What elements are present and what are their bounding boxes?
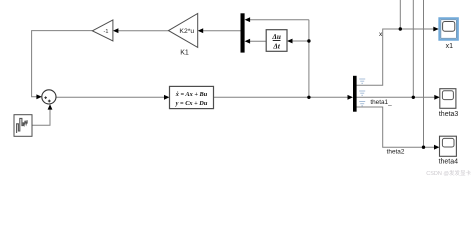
gain block -1 (flipped) (92, 20, 113, 41)
scope theta3 (440, 89, 456, 109)
wire: state-space output to demux input (214, 96, 349, 98)
mux M1 (flipped, 2 inputs) (241, 13, 245, 52)
arrowhead into demux input (348, 95, 354, 100)
svg-text:-1: -1 (104, 29, 109, 35)
svg-text:K1: K1 (180, 50, 189, 57)
svg-text:theta4: theta4 (439, 159, 459, 166)
wire: demux output 3 to scope theta4 (signal theta2) (357, 107, 435, 147)
band-limited white noise source B1 (14, 115, 32, 137)
wire: gain K1 output to -1 input (117, 30, 169, 32)
sum sign bottom + (48, 100, 51, 103)
wire: vertical from top edge to theta2 wire (423, 0, 425, 147)
arrowhead into sum left input (36, 94, 42, 99)
wire: vertical from top edge to theta1_ wire (412, 0, 414, 97)
demux D1 (3 outputs) (353, 76, 357, 112)
wire: demux output 2 to scope theta3 (signal theta1_) (357, 96, 436, 98)
svg-text:Δu: Δu (271, 33, 281, 41)
arrowhead into state-space input (164, 95, 170, 100)
svg-text:theta2: theta2 (387, 148, 405, 155)
arrowhead into scope theta4 (434, 145, 440, 150)
svg-text:CSDN @发发显卡: CSDN @发发显卡 (426, 169, 471, 177)
logging badge on demux output 3 (359, 102, 365, 106)
scope x1 (selected, blue highlight) (439, 18, 458, 40)
arrowhead into sum bottom input (48, 104, 53, 110)
svg-text:ẋ = Ax + Bu: ẋ = Ax + Bu (175, 91, 208, 98)
wire: sum output to state-space input (56, 96, 165, 98)
wire: noise source output to sum bottom input (32, 109, 50, 126)
sum block S1 (42, 90, 56, 104)
wire: derivative output to mux bottom input (249, 40, 267, 42)
svg-text:y = Cx + Du: y = Cx + Du (175, 100, 208, 107)
arrowhead into gain K1 input (flipped) (198, 28, 204, 33)
svg-text:Δt: Δt (272, 42, 281, 50)
wire feedback: -1 output to sum left input (32, 31, 93, 97)
scope theta4 (440, 136, 457, 156)
svg-text:theta3: theta3 (439, 111, 459, 118)
svg-text:K2*u: K2*u (179, 28, 194, 35)
svg-text:x1: x1 (446, 43, 454, 50)
logging badge on demux output 2 (359, 91, 365, 95)
sum sign left + (44, 96, 47, 99)
wire: vertical from top edge to x wire (399, 0, 401, 29)
arrowhead into scope theta3 (434, 95, 440, 100)
logging badge on demux output 1 (359, 79, 365, 83)
wire: demux output 1 to scope x1 (signal x) (357, 29, 434, 85)
junction dot on derivative branch (307, 39, 310, 42)
svg-text:theta1_: theta1_ (370, 99, 392, 106)
junction dot on state-space output wire (307, 96, 310, 99)
wire riser x=308.9 (308, 20, 310, 98)
junction dot on theta1_ wire (412, 96, 415, 99)
arrowhead into mux top input (flipped) (245, 17, 251, 22)
gain K1 (K2*u, flipped) (169, 14, 198, 48)
junction dot on theta2 wire (422, 146, 425, 149)
state-space block SS1 (170, 86, 214, 108)
junction dot on x wire (399, 27, 402, 30)
discrete derivative block DD1 (flipped) (266, 30, 287, 52)
wire: riser to mux top input (249, 19, 309, 21)
arrowhead into -1 gain input (flipped) (113, 28, 119, 33)
wire: branch to discrete derivative input (291, 40, 309, 42)
arrowhead into mux bottom input (flipped) (245, 39, 251, 44)
arrowhead into discrete derivative input (flipped) (287, 39, 293, 44)
arrowhead into scope x1 (433, 27, 439, 32)
wire: mux output to gain K1 input (201, 30, 240, 32)
